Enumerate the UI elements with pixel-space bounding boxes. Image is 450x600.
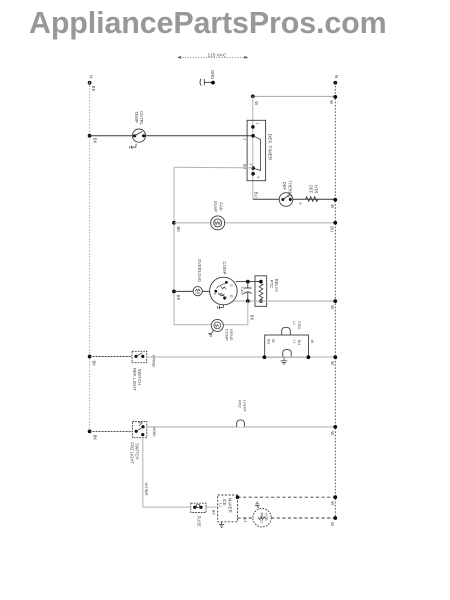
thermostat DEF THERMO — [279, 193, 293, 207]
switch REF LIGHT box — [132, 351, 147, 362]
resistor (PTC element) — [259, 283, 263, 299]
svg-text:4: 4 — [249, 163, 253, 165]
timer DEF. TIMER box — [247, 120, 266, 180]
pin 2 (timer) — [243, 134, 255, 140]
svg-text:BU: BU — [297, 340, 301, 346]
ground (cabinet) — [208, 330, 213, 336]
label L1 BU — [292, 340, 301, 346]
wire right rail (W/neutral) — [334, 83, 336, 519]
svg-text:W: W — [271, 339, 275, 343]
node H — [88, 75, 94, 85]
svg-text:EVAP: EVAP — [213, 201, 218, 212]
svg-text:W: W — [310, 340, 314, 344]
wire top neutral W horizontal — [253, 95, 335, 97]
junction (237.5,497.2) — [236, 495, 240, 499]
label COMP GRND — [224, 329, 234, 341]
motor COMP — [210, 277, 238, 305]
svg-text:BU: BU — [267, 339, 271, 345]
svg-text:PTC: PTC — [269, 280, 274, 288]
svg-text:LIGHT: LIGHT — [242, 400, 247, 412]
wire to frz switch — [90, 430, 133, 432]
junction (335.3,357.2) — [333, 355, 337, 359]
wire mid rail top to timer pin4 — [174, 166, 253, 169]
label ICE MAKER — [222, 498, 232, 513]
prong bump (line) — [283, 349, 291, 357]
svg-text:W: W — [330, 522, 335, 526]
fuse FUSE box — [191, 503, 206, 512]
icemaker ICE MAKER box (dashed) — [218, 495, 238, 522]
svg-text:HTR: HTR — [264, 513, 268, 521]
junction mid rail / evap fan — [172, 221, 176, 225]
svg-text:CAP: CAP — [240, 287, 245, 296]
svg-text:REF. LIGHT: REF. LIGHT — [132, 368, 137, 391]
svg-text:BK: BK — [93, 435, 98, 441]
svg-text:BK: BK — [91, 86, 96, 92]
svg-text:L1: L1 — [219, 503, 223, 507]
label PTC RELAY — [269, 279, 279, 293]
corner left rail / frz switch — [88, 430, 92, 434]
heater MOLD HTR — [253, 509, 271, 527]
svg-text:FUSE: FUSE — [196, 516, 201, 527]
protector OVERLOAD — [193, 287, 202, 296]
svg-text:N: N — [334, 75, 339, 78]
junction (247.8,301.1) — [246, 299, 250, 303]
svg-text:BK: BK — [176, 227, 181, 233]
svg-text:L1: L1 — [292, 321, 296, 325]
wire frz light line — [147, 426, 335, 428]
svg-text:3: 3 — [256, 176, 260, 178]
junction (308.4,357.2) — [307, 355, 311, 359]
capacitor RUN CAP — [244, 282, 252, 302]
wire icemaker heater line (dashed) — [238, 517, 336, 519]
svg-text:GRND: GRND — [229, 329, 234, 341]
junction mid rail / compressor — [172, 290, 176, 294]
svg-text:W: W — [330, 204, 335, 208]
svg-text:5: 5 — [298, 202, 303, 205]
thermostat TEMP CNTRL — [132, 129, 145, 142]
svg-text:115 VAC: 115 VAC — [208, 52, 227, 58]
dimension 115 VAC — [177, 56, 248, 59]
svg-text:R: R — [229, 295, 233, 298]
svg-text:H: H — [88, 75, 93, 78]
svg-text:SWITCH: SWITCH — [137, 369, 142, 386]
motor EVAP FAN — [211, 216, 225, 230]
relay pin bottom — [259, 299, 263, 303]
junction left rail / ref switch — [88, 355, 92, 359]
junction (247.8,281.6) — [246, 280, 250, 284]
resistor DEF HTR — [306, 197, 319, 202]
pin 4 (timer) — [249, 163, 255, 170]
switch FRZ LIGHT box — [132, 422, 146, 438]
wire left rail (BK) — [89, 82, 91, 431]
junction (335.3,96.9) — [333, 95, 337, 99]
junction (335.3,518) — [333, 516, 337, 520]
svg-text:ICE: ICE — [222, 499, 227, 506]
label DEF THERMO — [282, 180, 292, 199]
svg-text:BK: BK — [176, 295, 181, 301]
wire def timer feed vertical — [252, 96, 254, 198]
svg-text:DEF: DEF — [308, 185, 313, 194]
wire mid rail (BK) — [173, 167, 175, 324]
svg-text:DEF: DEF — [282, 182, 287, 191]
svg-text:FAN: FAN — [218, 202, 223, 210]
heater (case ground circle) — [211, 319, 223, 331]
wire comp run line to rail — [234, 300, 336, 302]
svg-text:W/BK: W/BK — [152, 427, 157, 438]
wire temp control line — [90, 135, 253, 137]
wire fuse to icemaker — [206, 506, 218, 508]
svg-text:COMP: COMP — [224, 329, 229, 341]
junction (335.3,222.8) — [333, 221, 337, 225]
label BU/W — [267, 339, 276, 345]
ground (icemaker frame) — [219, 522, 224, 528]
label MOLD HTR — [260, 513, 268, 524]
junction (264.4,357.2) — [263, 355, 267, 359]
junction left rail / temp control — [88, 134, 92, 138]
ground (mold) — [255, 502, 260, 508]
svg-text:DEF. TIMER: DEF. TIMER — [266, 134, 272, 161]
pin 1 (timer) — [251, 123, 260, 129]
svg-text:2: 2 — [243, 138, 247, 140]
connector (light receptacle) box — [265, 335, 309, 357]
wire ground line — [174, 324, 247, 326]
svg-text:BK: BK — [212, 510, 217, 516]
wire evap fan line — [174, 222, 335, 224]
prong bump (grd) — [282, 327, 291, 335]
label REF LIGHT SWITCH — [132, 368, 142, 391]
svg-text:FRZ: FRZ — [238, 400, 243, 408]
svg-text:GRD: GRD — [210, 70, 215, 79]
relay PTC RLY box — [255, 276, 267, 307]
ground mark at temp control — [130, 144, 136, 149]
svg-text:BU: BU — [253, 192, 258, 198]
wire compressor feed — [174, 290, 210, 292]
svg-text:C: C — [212, 293, 216, 296]
wire icemaker top to rail (dashed) — [238, 496, 336, 498]
svg-text:HTR: HTR — [314, 185, 319, 194]
svg-text:COMP: COMP — [222, 261, 227, 274]
ground (compressor case) — [217, 305, 223, 310]
svg-text:MAKER: MAKER — [227, 498, 232, 513]
header logo text — [29, 6, 387, 41]
svg-text:BK: BK — [92, 361, 97, 367]
wire cap down leg — [246, 301, 249, 325]
svg-text:W: W — [330, 361, 335, 365]
label DEF HTR — [308, 185, 318, 194]
junction (335.3,426.9) — [333, 425, 337, 429]
timer switch arm — [253, 136, 261, 171]
svg-text:W: W — [254, 101, 259, 105]
svg-text:BU: BU — [242, 164, 246, 170]
junction (335.3,199.8) — [333, 198, 337, 202]
wire defrost heater line — [253, 198, 335, 200]
svg-text:SWITCH: SWITCH — [135, 443, 140, 460]
svg-text:CNTRL: CNTRL — [139, 111, 144, 126]
wire comp start to relay — [236, 281, 261, 283]
wire frz switch down leg — [143, 438, 191, 507]
relay pin top — [259, 280, 263, 284]
svg-text:W: W — [330, 305, 335, 309]
svg-text:GRD: GRD — [297, 321, 301, 330]
svg-text:BK: BK — [250, 315, 255, 321]
label L1 GRD — [292, 321, 301, 330]
junction (335.3,301.1) — [333, 299, 337, 303]
svg-text:W: W — [329, 100, 334, 104]
ground (receptacle) — [281, 357, 288, 364]
ground GRD (power cord) — [200, 79, 215, 86]
svg-text:L1: L1 — [243, 518, 248, 523]
svg-text:BU: BU — [329, 226, 334, 232]
lamp FRZ LIGHT bump — [237, 420, 245, 427]
label FRZ LIGHT SWITCH — [129, 442, 139, 464]
label EVAP FAN — [213, 201, 223, 212]
label FRZ LIGHT (lamp) — [238, 400, 248, 412]
wire ref light line — [147, 356, 336, 358]
junction (252.8,96.4) — [251, 95, 255, 99]
svg-text:1: 1 — [256, 123, 260, 125]
svg-text:W: W — [330, 501, 335, 505]
svg-text:BK: BK — [93, 138, 98, 144]
pin 3 (timer) — [251, 172, 259, 178]
svg-text:THERMO: THERMO — [287, 180, 292, 199]
svg-text:FRZ LIGHT: FRZ LIGHT — [129, 442, 134, 464]
junction (335.3,497.2) — [333, 495, 337, 499]
svg-text:OVERLOAD: OVERLOAD — [197, 259, 202, 282]
svg-text:L1: L1 — [292, 340, 296, 344]
svg-text:TEMP: TEMP — [134, 111, 139, 123]
svg-text:W: W — [330, 431, 335, 435]
svg-text:WT/BR: WT/BR — [144, 483, 149, 496]
wire to ref switch — [90, 356, 132, 358]
svg-text:RELAY: RELAY — [274, 279, 279, 293]
node N — [333, 75, 339, 85]
label TEMP CNTRL — [134, 111, 144, 126]
svg-text:MOLD: MOLD — [260, 513, 264, 524]
